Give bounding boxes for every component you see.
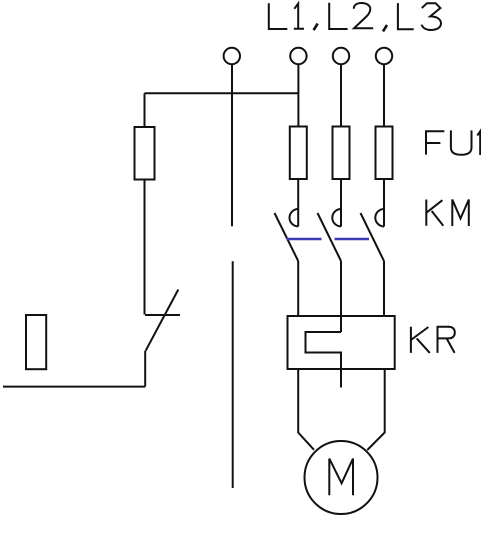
wire main horizontal tap (145, 92, 299, 94)
wire fuse FU1-2 to contact KM-2 (340, 179, 342, 227)
wire lower section of branch (232, 261, 234, 488)
contact bar of stop switch (145, 314, 180, 316)
terminal circle node L3 (376, 48, 392, 64)
contact KM-2 blade (318, 213, 342, 261)
wire contact KM-1 to relay KR (297, 261, 299, 316)
label KR (411, 327, 455, 353)
motor M circle (305, 441, 378, 514)
wire horizontal to left edge (3, 386, 145, 388)
label KM (426, 200, 469, 227)
terminal circle node L1 (290, 48, 306, 64)
wire left fuse to contact (144, 180, 146, 315)
wire terminal L2 to fuse FU1-2 (340, 65, 342, 127)
wire terminal L3 to fuse FU1-3 (383, 65, 385, 127)
wire tap to left fuse (144, 93, 146, 127)
wire fuse FU1-1 to contact KM-1 (297, 179, 299, 227)
thermal relay KR box (288, 316, 395, 369)
wire relay KR to motor left (298, 369, 314, 450)
wire fuse FU1-3 to contact KM-3 (383, 179, 385, 227)
fuse FU1-3 (376, 127, 393, 180)
wire relay KR to motor right (367, 369, 384, 450)
wire contact KM-2 to relay KR (340, 261, 342, 332)
contact KM-1 blade (275, 213, 299, 261)
motor letter M (329, 459, 353, 496)
fuse left branch (135, 127, 155, 180)
isolated rectangle component (26, 315, 46, 369)
contact KM-3 fixed hook (375, 209, 384, 226)
label L1,L2,L3 (269, 3, 441, 32)
fuse FU1-2 (333, 127, 350, 180)
label FU1 (426, 130, 480, 155)
wire terminal L1 to fuse FU1-1 (297, 65, 299, 127)
thermal relay KR heater element (306, 332, 342, 388)
contact KM-3 blade (361, 213, 385, 261)
mechanical linkage dashed blue (287, 238, 370, 240)
terminal circle node L0 (224, 48, 240, 64)
terminal circle node L2 (333, 48, 349, 64)
wire branch vertical from terminal L0 (231, 65, 233, 227)
blade of stop switch (146, 290, 179, 351)
fuse FU1-1 (290, 127, 307, 180)
contact KM-2 fixed hook (332, 209, 341, 226)
wire contact KM-3 to relay KR (383, 261, 385, 316)
contact KM-1 fixed hook (290, 209, 299, 226)
wire below stop switch (144, 351, 146, 387)
